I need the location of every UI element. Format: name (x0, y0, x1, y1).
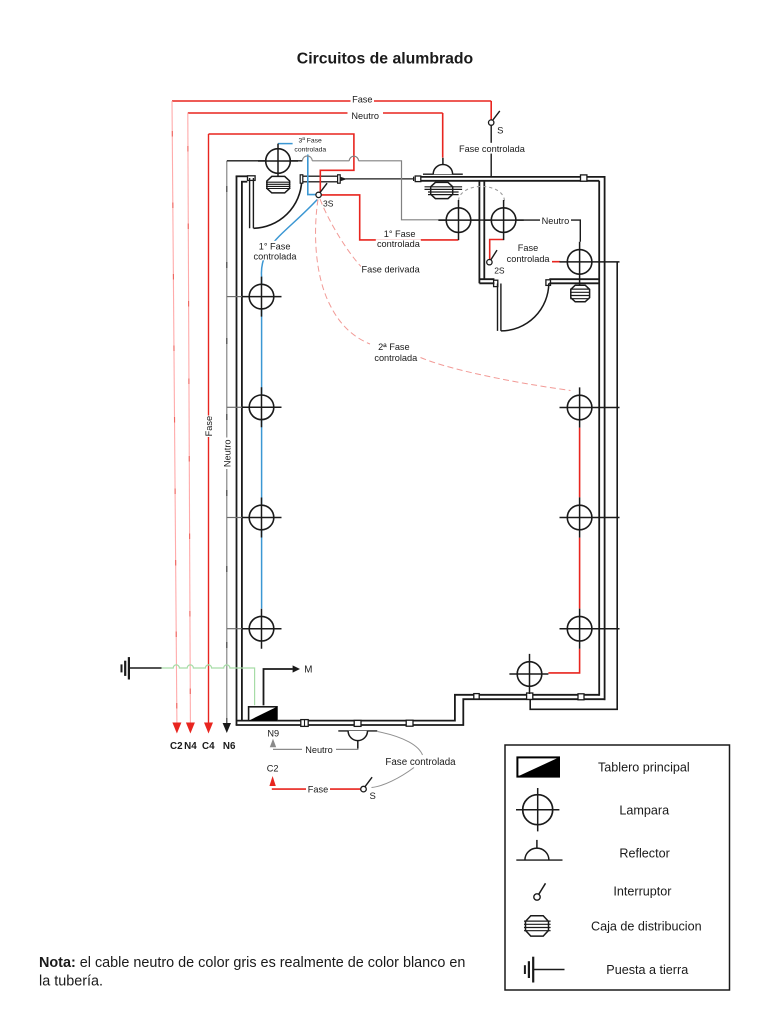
svg-text:N9: N9 (267, 728, 279, 738)
wire feeder C2 vertical pale red (172, 101, 177, 723)
lamp L1 top porch (258, 144, 298, 181)
label fase controlada room B (505, 242, 553, 264)
wall right inner (598, 181, 600, 696)
svg-text:Fase: Fase (352, 94, 372, 104)
conduit run outside right wall (530, 262, 617, 709)
wire blue dash left of label (278, 143, 293, 145)
interruptor S top (489, 111, 500, 125)
legend interruptor symbol (534, 883, 546, 900)
legend box (505, 745, 730, 990)
caja de distribucion top (266, 176, 290, 193)
interruptor 3S (316, 183, 327, 197)
wire red 2S to lamp room B (505, 261, 560, 263)
svg-text:Interruptor: Interruptor (613, 885, 671, 899)
wall top-left stub inner (241, 181, 247, 183)
wire feeder C4 vertical red (208, 134, 210, 723)
lamp L11 right column (560, 609, 620, 649)
leader thin red to fase derivada (320, 199, 361, 267)
svg-text:2ª Fase: 2ª Fase (378, 342, 410, 352)
wire switch S1 down to wall (490, 125, 492, 176)
svg-text:M: M (304, 665, 312, 676)
lamp L10 right column (560, 497, 620, 537)
arrow C2 down (172, 723, 181, 734)
label Neutro top (348, 110, 384, 121)
svg-text:C2: C2 (267, 764, 279, 774)
wire neutro gray segment (312, 160, 349, 162)
conduit connector lamp stem junction (527, 693, 533, 699)
wall left outer (236, 176, 238, 725)
wire neutro red second (188, 113, 443, 158)
wall left inner (241, 182, 243, 721)
svg-text:Fase controlada: Fase controlada (459, 144, 526, 154)
conduit connector tick (413, 177, 415, 181)
conduit tube on top wall (302, 176, 340, 182)
wall top-left stub outer (236, 175, 248, 177)
lamp L7 room B (484, 200, 524, 240)
conduit connector bottom-left wall 2 (354, 720, 361, 726)
wire N9 neutro gray bottom (273, 748, 358, 749)
label neutro room B (540, 215, 571, 226)
wire blue from label to 3S (308, 155, 316, 195)
conduit tube tip (341, 177, 346, 180)
svg-text:2S: 2S (494, 265, 505, 275)
lamp L2 left column (227, 277, 282, 317)
label Fase bottom (306, 784, 330, 795)
conduit connector bottom-right wall 1 (474, 694, 479, 699)
lamp L4 left column (227, 498, 282, 538)
door jamb cap D2 right (546, 280, 551, 286)
wire fase red top (172, 101, 491, 120)
arrow C4 down (204, 723, 213, 734)
svg-text:Nota: el cable neutro de color: Nota: el cable neutro de color gris es r… (39, 955, 465, 971)
label neutro rotated (222, 438, 232, 470)
leader thin red to 2a fase label (316, 200, 370, 345)
conduit tube cap left (300, 175, 303, 183)
arrow N6 down (223, 723, 231, 733)
svg-text:N4: N4 (184, 741, 197, 752)
svg-text:Fase derivada: Fase derivada (361, 265, 420, 275)
wire red bottom fase to switch (273, 787, 361, 790)
wall interior horizontal lower line (479, 282, 599, 284)
interruptor S bottom (361, 777, 372, 792)
svg-text:Fase controlada: Fase controlada (385, 757, 456, 768)
legend tablero symbol (517, 757, 559, 776)
wire green ground run with hops (162, 665, 255, 705)
lamp L6 room A (438, 200, 478, 240)
label fase derivada (361, 264, 421, 275)
svg-text:controlada: controlada (374, 353, 418, 363)
svg-text:S: S (370, 791, 376, 802)
svg-text:Reflector: Reflector (619, 846, 669, 860)
wall divider left line (478, 181, 480, 283)
svg-text:C2: C2 (170, 741, 183, 752)
svg-text:Lampara: Lampara (619, 804, 669, 818)
svg-text:1° Fase: 1° Fase (384, 229, 416, 239)
wall top inner right section (421, 180, 599, 182)
svg-text:controlada: controlada (294, 147, 326, 154)
reflector top (423, 158, 463, 174)
label fase rotated (204, 416, 214, 438)
door jamb cap D1 (248, 176, 256, 181)
svg-text:Fase: Fase (518, 243, 538, 253)
svg-text:Fase: Fase (308, 785, 328, 795)
label Fase controlada top (458, 143, 526, 154)
svg-text:Neutro: Neutro (305, 745, 333, 755)
svg-text:N6: N6 (223, 741, 236, 752)
svg-text:controlada: controlada (507, 254, 551, 264)
arrow N4 down (186, 723, 195, 734)
svg-text:Circuitos de alumbrado: Circuitos de alumbrado (297, 51, 474, 68)
wire feeder N4 vertical pale red (188, 113, 191, 723)
conduit tube cap right (338, 175, 341, 183)
svg-text:Puesta a tierra: Puesta a tierra (606, 963, 688, 977)
svg-text:S: S (497, 126, 503, 137)
lamp L12 bottom (509, 654, 548, 694)
wall interior horizontal upper line (479, 278, 599, 280)
leader thin red label to lamp (421, 358, 571, 391)
wire red lamp2 stem to 2S (490, 240, 504, 260)
arrow C2 up red (269, 776, 275, 786)
svg-text:1° Fase: 1° Fase (259, 241, 291, 251)
note text (39, 955, 465, 990)
wall divider right line (483, 181, 485, 279)
reflector bottom (338, 731, 377, 749)
svg-text:Fase: Fase (204, 416, 214, 436)
svg-text:controlada: controlada (377, 239, 421, 249)
lamp L5 left column (227, 609, 282, 649)
wire neutro black top segment (227, 160, 303, 162)
svg-text:Caja de distribucion: Caja de distribucion (591, 920, 702, 934)
wire neutro room B lamps (438, 220, 580, 242)
legend caja symbol (524, 916, 551, 936)
wall top outer right section (421, 176, 606, 178)
interruptor 2S (487, 250, 497, 265)
door leaf D2 (498, 284, 501, 331)
wire blue 3S to left lamp column (261, 200, 317, 609)
wire M motor feed (264, 669, 293, 705)
label 1 fase controlada right (376, 229, 421, 250)
lamp L8 room B right (560, 242, 620, 285)
wire neutro gray to lamp room A (359, 161, 439, 220)
conduit connector bottom-left wall 1 (301, 720, 308, 727)
wall right outer (604, 176, 606, 700)
caja de distribucion top wall (425, 182, 463, 198)
arrow N9 up gray (270, 739, 276, 748)
wire feeder N6 vertical gray (226, 161, 228, 723)
label 2a fase controlada (374, 342, 418, 363)
arrow M right (293, 665, 300, 672)
door jamb cap D2 left (494, 280, 498, 286)
conduit connector top wall right (581, 175, 587, 181)
conduit connector bottom-right wall 2 (578, 694, 584, 700)
legend reflector symbol (516, 840, 562, 860)
conduit connector on top wall (415, 176, 421, 182)
lamp L9 right column (560, 387, 620, 427)
wire hop over blue (302, 156, 312, 161)
door leaf D1 (250, 178, 254, 228)
leader gray reflector to label (378, 732, 423, 756)
wire red from 3S to lamp stem (321, 195, 458, 240)
door swing arc D2 (501, 283, 549, 331)
lamp L3 left column (227, 387, 282, 427)
svg-text:Neutro: Neutro (222, 440, 232, 468)
tablero principal plan (249, 707, 277, 721)
svg-text:Neutro: Neutro (351, 111, 379, 121)
conduit thin run on top wall (345, 178, 414, 180)
svg-text:Tablero principal: Tablero principal (598, 761, 690, 775)
door swing arc D1 (254, 181, 302, 229)
label Fase top (351, 94, 375, 105)
svg-text:3S: 3S (323, 198, 334, 208)
wall bottom inner path with step (237, 695, 600, 721)
conduit connector bottom-left wall 1 tick (304, 720, 306, 726)
label 3a fase controlada (294, 137, 326, 153)
svg-text:controlada: controlada (254, 251, 298, 261)
svg-text:Neutro: Neutro (542, 216, 570, 226)
conduit connector bottom-left wall 3 (406, 720, 413, 726)
wire hop over red (349, 156, 358, 161)
svg-text:la tubería.: la tubería. (39, 973, 103, 989)
svg-text:C4: C4 (202, 741, 215, 752)
svg-text:3ª Fase: 3ª Fase (299, 137, 323, 144)
label 1 fase controlada left (254, 241, 298, 261)
dashed arch between room lamps (459, 186, 505, 200)
legend puesta a tierra symbol (525, 957, 565, 983)
ground symbol plan (122, 657, 162, 679)
legend lampara symbol (516, 788, 559, 831)
leader gray label to switch (372, 768, 415, 788)
label Neutro bottom (302, 744, 336, 755)
wall bottom outer path with step (236, 699, 606, 725)
caja de distribucion room C (570, 285, 589, 302)
wire red right column lamps (548, 428, 579, 673)
wire 3a fase red third (209, 134, 354, 192)
